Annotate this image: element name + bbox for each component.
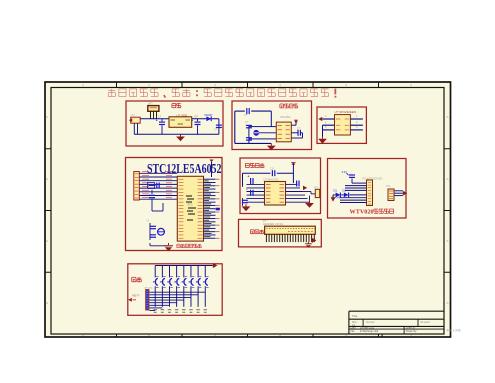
svg-text:Date:: Date: bbox=[351, 327, 357, 330]
svg-text:A: A bbox=[46, 239, 48, 243]
svg-text:D1: D1 bbox=[334, 189, 338, 193]
svg-text:P3: P3 bbox=[387, 184, 391, 188]
svg-text:U? SP3232EEN: U? SP3232EEN bbox=[335, 110, 357, 114]
svg-text:WTV020: WTV020 bbox=[350, 208, 374, 215]
svg-text:HEADER 19X1H: HEADER 19X1H bbox=[263, 222, 283, 226]
svg-text:+: + bbox=[248, 175, 250, 179]
svg-text:C?: C? bbox=[245, 120, 249, 124]
svg-text:A: A bbox=[446, 301, 448, 305]
svg-text:U? MAX232: U? MAX232 bbox=[263, 177, 279, 181]
svg-text:A: A bbox=[46, 301, 48, 305]
svg-text:P?: P? bbox=[315, 185, 319, 189]
svg-text:E:\MyDesign.ddb: E:\MyDesign.ddb bbox=[360, 330, 379, 333]
svg-text:+: + bbox=[191, 118, 193, 122]
svg-text:C?: C? bbox=[244, 113, 248, 117]
svg-text:Y1: Y1 bbox=[146, 219, 150, 223]
svg-text:STC: STC bbox=[187, 203, 192, 207]
svg-text:Title: Title bbox=[352, 314, 358, 318]
svg-text:Number: Number bbox=[366, 321, 375, 324]
svg-text:A: A bbox=[46, 177, 48, 181]
svg-text:D2: D2 bbox=[343, 189, 347, 193]
svg-text:+: + bbox=[246, 187, 248, 191]
svg-text:C?: C? bbox=[297, 127, 301, 131]
svg-text:446 x 346: 446 x 346 bbox=[447, 328, 461, 332]
svg-text:Drawn By:: Drawn By: bbox=[406, 330, 417, 333]
svg-text:A: A bbox=[446, 177, 448, 181]
svg-text:+: + bbox=[156, 118, 158, 122]
svg-text:IN4007: IN4007 bbox=[205, 114, 214, 117]
svg-text:3.3V: 3.3V bbox=[342, 170, 348, 174]
svg-text:DS1302: DS1302 bbox=[280, 115, 291, 119]
svg-text:C5: C5 bbox=[146, 179, 150, 183]
svg-text:Sheet of: Sheet of bbox=[406, 327, 415, 330]
svg-text:A: A bbox=[446, 239, 448, 243]
svg-text:A: A bbox=[446, 115, 448, 119]
svg-text:File:: File: bbox=[351, 330, 356, 333]
svg-text:A: A bbox=[46, 115, 48, 119]
svg-text:C9: C9 bbox=[270, 166, 274, 170]
svg-text:Revision: Revision bbox=[421, 321, 431, 324]
svg-text:28-May-2013: 28-May-2013 bbox=[360, 327, 375, 330]
svg-text:KEY?: KEY? bbox=[133, 294, 140, 298]
svg-text:STC12LE5A6052: STC12LE5A6052 bbox=[147, 162, 222, 177]
